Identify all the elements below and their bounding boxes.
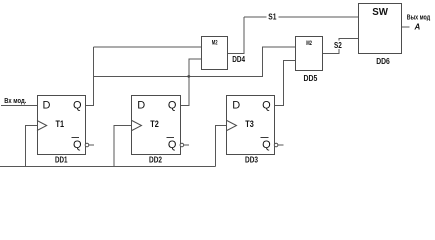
svg-text:DD3: DD3 [245,155,258,165]
wire S1 to SW input 1 [244,16,359,18]
svg-text:SW: SW [372,6,388,18]
svg-text:D: D [43,100,51,112]
DD3 body [227,96,275,155]
Q-bar stub [89,144,94,146]
svg-text:DD1: DD1 [55,155,68,165]
svg-text:Вых мод: Вых мод [407,15,431,22]
svg-text:Q: Q [262,139,271,151]
wire: clock tap to T3 C [216,126,227,167]
wire: DD5 output to S2 to SW input 2 [323,39,360,54]
svg-text:S2: S2 [334,41,342,50]
DD6 body [359,4,402,54]
wire: clock tap to T2 C [114,126,132,167]
svg-text:Вх мод.: Вх мод. [4,98,26,105]
wire: T1.Q to DD4 input 1 [94,46,202,48]
clock triangle [37,121,47,131]
wire: long branch to DD5 input 1 [94,47,296,77]
wire: T3.Q to DD5 input 2 [274,61,296,106]
wire: clock bus [0,166,216,168]
wire: clock tap to T1 C [25,126,37,167]
svg-text:D: D [137,100,145,112]
Q-bar stub [184,144,189,146]
Q-bar bubble [85,143,89,147]
flip-flop T2 / DD2 [132,96,190,155]
DD1 body [38,96,86,155]
XOR M2 / DD4 [202,37,228,70]
Q-bar stub [278,144,283,146]
wire: input Вх мод to T1.D [1,104,37,106]
node S1 [267,12,279,22]
switch SW / DD6 [359,4,402,54]
DD2 body [132,96,181,155]
svg-text:DD6: DD6 [376,56,390,66]
wire: DD4 output up to S1 [228,17,244,54]
svg-text:DD2: DD2 [149,155,162,165]
svg-text:DD4: DD4 [232,54,245,64]
DD4 body [202,37,228,70]
svg-text:S1: S1 [268,13,277,22]
svg-text:Q: Q [168,100,177,112]
flip-flop T1 / DD1 [37,96,94,155]
Q-bar bubble [180,143,184,147]
Q-bar overline [261,137,269,139]
junction dot at T2.Q crossing [187,75,190,78]
wire: T2.Q to DD4 input 2 [180,59,201,105]
svg-text:T2: T2 [150,119,159,130]
svg-text:Q: Q [73,139,82,151]
wire: T1.Q up [85,47,93,105]
svg-text:А: А [414,22,421,31]
svg-text:T1: T1 [56,119,65,130]
svg-text:Q: Q [73,100,82,112]
Q-bar bubble [274,143,278,147]
XOR M2 / DD5 [296,37,323,71]
svg-text:Q: Q [168,139,177,151]
svg-text:DD5: DD5 [304,73,318,83]
svg-text:М2: М2 [212,41,218,47]
wire: SW output [401,26,409,28]
svg-text:М2: М2 [306,41,312,47]
DD5 body [296,37,323,71]
svg-text:T3: T3 [245,119,254,130]
Q-bar overline [166,137,174,139]
Q-bar overline [72,137,80,139]
svg-text:Q: Q [262,100,271,112]
node S2 [333,41,343,50]
svg-text:D: D [232,100,240,112]
flip-flop T3 / DD3 [227,96,284,155]
clock triangle [227,121,237,131]
clock triangle [132,121,142,131]
